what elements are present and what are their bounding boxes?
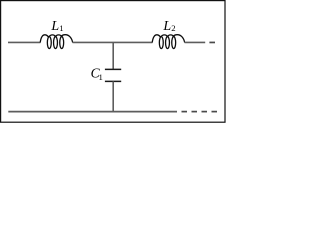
svg-text:2: 2 bbox=[171, 23, 175, 33]
svg-text:1: 1 bbox=[99, 72, 103, 82]
svg-text:1: 1 bbox=[59, 23, 63, 33]
wire: bottom rail dashes (continuation) bbox=[182, 111, 188, 113]
inductor L2 bbox=[152, 35, 184, 49]
wire: capacitor top stub bbox=[112, 42, 114, 69]
svg-text:L: L bbox=[50, 19, 59, 34]
wire: capacitor bottom stub bbox=[112, 81, 114, 111]
svg-text:L: L bbox=[162, 19, 171, 34]
border frame bbox=[1, 1, 225, 123]
wire: bottom rail bbox=[8, 111, 177, 113]
capacitor C1 bbox=[105, 68, 121, 70]
wire: top rail right segment bbox=[185, 41, 206, 43]
wire: top rail dash (continuation) bbox=[209, 41, 215, 43]
wire: top rail middle segment bbox=[73, 41, 153, 43]
wire: top rail left segment bbox=[8, 41, 40, 43]
inductor L1 bbox=[40, 35, 72, 49]
